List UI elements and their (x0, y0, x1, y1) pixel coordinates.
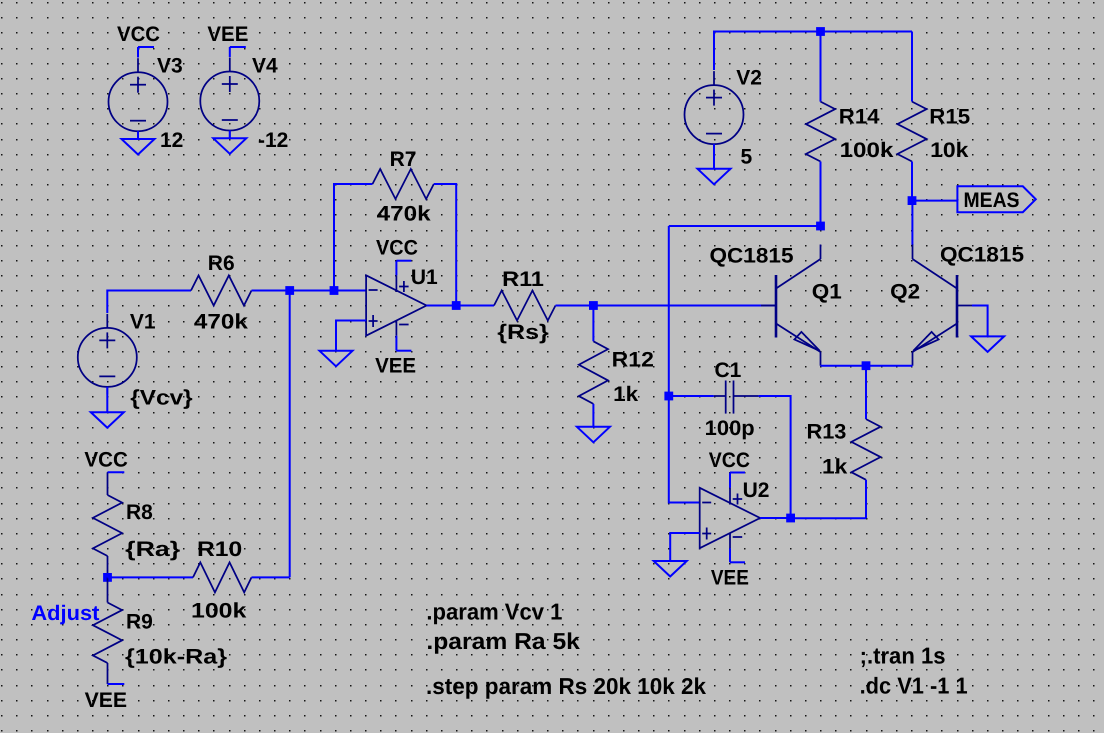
svg-text:470k: 470k (194, 311, 248, 334)
svg-text:VEE: VEE (85, 689, 128, 712)
svg-text:VEE: VEE (711, 567, 749, 590)
label V2 value "5" (741, 146, 753, 169)
svg-text:{Rs}: {Rs} (497, 321, 549, 344)
svg-text:10k: 10k (930, 139, 969, 162)
label directive ";.tran 1s" (860, 642, 946, 668)
resistor R10 (193, 562, 252, 592)
svg-text:{10k-Ra}: {10k-Ra} (125, 645, 227, 668)
node Adjust junction (103, 573, 112, 582)
ground (V4) (213, 131, 246, 154)
svg-text:V4: V4 (252, 54, 278, 77)
svg-text:VCC: VCC (117, 23, 160, 46)
label V4 net name "VEE" (207, 23, 248, 46)
resistor R11 (494, 291, 556, 321)
label directive ".param Ra 5k" (426, 628, 580, 654)
wire V1 top to R6 (107, 291, 191, 314)
resistor R13 (851, 419, 880, 480)
wire node Adjust to R10 (108, 576, 194, 578)
wire node E to C1 (669, 395, 714, 397)
label V4 value "-12" (258, 129, 288, 152)
op-amp U1 (366, 275, 426, 335)
wire Q1 collector to riser (669, 225, 821, 227)
svg-text:R11: R11 (502, 268, 544, 291)
voltage source V2 (685, 71, 744, 152)
wire R14 top lead (820, 32, 822, 102)
label U2 VEE pin (711, 567, 749, 590)
wire U1 non-inverting input to ground (336, 321, 366, 351)
label R7 value "470k" (377, 202, 431, 225)
svg-text:1k: 1k (613, 383, 638, 406)
node H junction (816, 222, 825, 231)
label directive ".step param Rs 20k 10k 2k" (426, 673, 706, 699)
node I junction (908, 196, 917, 205)
svg-text:5: 5 (741, 146, 753, 169)
net label VCC (U1) (396, 261, 411, 276)
svg-text:470k: 470k (377, 202, 431, 225)
svg-text:R7: R7 (390, 148, 417, 171)
label Q2 designator (890, 281, 920, 304)
svg-text:{Ra}: {Ra} (125, 538, 180, 561)
label R9 value "{10k-Ra}" (125, 645, 227, 668)
ground (Q2 base) (971, 336, 1004, 352)
svg-text:{Vcv}: {Vcv} (130, 387, 192, 410)
ground (U2 + input) (654, 561, 687, 577)
svg-text:V1: V1 (130, 310, 156, 333)
wire R15 bottom lead (911, 162, 913, 201)
label MEAS text (964, 189, 1020, 212)
wire U2 non-inverting input to ground (670, 533, 700, 561)
node J junction (862, 361, 871, 370)
wire R13 bottom lead (865, 480, 867, 519)
label R15 value "10k" (930, 139, 969, 162)
resistor R7 (373, 169, 434, 199)
net label VEE (U2) (730, 548, 745, 562)
wire feedback left (334, 184, 373, 291)
svg-text:.dc V1 -1 1: .dc V1 -1 1 (860, 673, 968, 699)
wire R6 to U1 inverting input (252, 290, 367, 292)
wire U1 output (427, 305, 457, 307)
svg-text:-12: -12 (258, 129, 288, 152)
wire Q2 emitter to node J (866, 365, 913, 367)
label Q1 model "QC1815" (710, 245, 794, 268)
label R11 designator (502, 268, 544, 291)
svg-text:12: 12 (160, 129, 183, 152)
label net name "Adjust" (31, 602, 99, 625)
label R10 value "100k" (191, 600, 247, 623)
label U1 VCC pin (376, 237, 418, 260)
wire V2 top rail (714, 32, 912, 71)
label R8 designator (126, 501, 153, 524)
label R9 designator (126, 610, 153, 633)
label V1 designator (130, 310, 156, 333)
voltage source V3 (109, 58, 168, 139)
wire R9 top lead (107, 577, 109, 602)
label V3 value "12" (160, 129, 183, 152)
node C junction (452, 301, 461, 310)
svg-text:QC1815: QC1815 (940, 244, 1024, 267)
label R14 designator (839, 106, 880, 129)
voltage source V4 (200, 58, 259, 139)
label V1 value "{Vcv}" (130, 387, 192, 410)
label R12 value "1k" (613, 383, 638, 406)
label R6 value "470k" (194, 311, 248, 334)
svg-text:.param Ra 5k: .param Ra 5k (426, 628, 580, 654)
svg-text:C1: C1 (715, 359, 742, 382)
label V2 designator (736, 67, 762, 90)
svg-text:V3: V3 (157, 54, 183, 77)
ground (V1) (91, 387, 124, 428)
svg-text:VCC: VCC (376, 237, 418, 260)
svg-text:R12: R12 (612, 349, 654, 372)
resistor R14 (806, 102, 835, 162)
wire feedback right (434, 184, 456, 306)
wire R8 bottom lead (107, 556, 109, 577)
wire R15 top lead (911, 32, 913, 102)
net label VEE (U1) (396, 336, 411, 351)
wire emitters node to R13 (865, 366, 867, 419)
svg-text:100p: 100p (705, 417, 755, 440)
wire node D to Q1 base (593, 305, 776, 307)
svg-text:R14: R14 (839, 106, 880, 129)
label C1 value "100p" (705, 417, 755, 440)
node E junction (664, 392, 673, 401)
svg-text:VEE: VEE (207, 23, 248, 46)
net label VCC (U2) (730, 473, 745, 488)
wire C1 to U2 output (759, 396, 791, 518)
node A junction (285, 286, 294, 295)
net label VCC (V3) (138, 47, 154, 58)
label U1 VEE pin (375, 355, 416, 378)
label V3 net name "VCC" (117, 23, 160, 46)
net label VEE (V4) (230, 47, 246, 57)
node B junction (330, 286, 339, 295)
resistor R12 (579, 341, 608, 404)
svg-text:R6: R6 (208, 252, 235, 275)
label R13 designator (807, 421, 847, 444)
label R8 value "{Ra}" (125, 538, 180, 561)
svg-text:VCC: VCC (84, 449, 128, 472)
wire node D down to R12 (592, 306, 594, 342)
node D junction (589, 301, 598, 310)
label R9 VEE net (85, 689, 128, 712)
label Q1 designator (812, 281, 842, 304)
svg-text:100k: 100k (840, 139, 894, 162)
svg-text:R10: R10 (197, 538, 242, 561)
wire Q2 collector up (911, 201, 913, 245)
wire riser down to U2 inverting input (669, 226, 700, 503)
svg-text:1k: 1k (822, 456, 848, 479)
net flag MEAS (957, 186, 1035, 212)
ground (V3) (122, 131, 155, 154)
label U2 VCC pin (709, 449, 750, 472)
label R10 designator (197, 538, 242, 561)
wire riser node A down to R10 (289, 291, 291, 578)
label V4 designator (252, 54, 278, 77)
label R6 designator (208, 252, 235, 275)
label directive ".param Vcv 1" (426, 598, 562, 624)
ground (V2) (698, 144, 731, 184)
label R12 designator (612, 349, 654, 372)
svg-text:QC1815: QC1815 (710, 245, 794, 268)
resistor R15 (897, 102, 926, 162)
label V3 designator (157, 54, 183, 77)
svg-text:R13: R13 (807, 421, 847, 444)
svg-text:VEE: VEE (375, 355, 416, 378)
wire Q2 base to ground (972, 306, 988, 337)
transistor Q1 (761, 245, 821, 366)
transistor Q2 (913, 245, 973, 366)
svg-text:MEAS: MEAS (964, 189, 1020, 212)
wire R14 bottom lead (820, 162, 822, 227)
ground (R12) (577, 427, 610, 443)
node G junction (816, 27, 825, 36)
wire R12 to ground (592, 404, 594, 427)
label Q2 model "QC1815" (940, 244, 1024, 267)
ground (U1 + input) (320, 351, 353, 367)
svg-text:R15: R15 (929, 106, 970, 129)
label R11 value "{Rs}" (497, 321, 549, 344)
svg-text:.param Vcv 1: .param Vcv 1 (426, 598, 562, 624)
label R14 value "100k" (840, 139, 894, 162)
wire R10 to riser corner (252, 576, 290, 578)
wire Q1 emitter to node J (821, 365, 867, 367)
svg-text:U2: U2 (743, 479, 770, 502)
op-amp U2 (700, 488, 760, 548)
svg-text:;.tran 1s: ;.tran 1s (860, 642, 946, 668)
svg-text:R9: R9 (126, 610, 153, 633)
resistor R6 (191, 276, 252, 306)
wire node I to MEAS flag (912, 200, 957, 202)
wire node F to R13 bottom (791, 517, 866, 519)
resistor R8 (93, 495, 122, 556)
label U2 designator (743, 479, 770, 502)
label R8 VCC net (84, 449, 128, 472)
svg-text:Q1: Q1 (812, 281, 842, 304)
svg-text:.step param Rs 20k 10k 2k: .step param Rs 20k 10k 2k (426, 673, 706, 699)
label R15 designator (929, 106, 970, 129)
label U1 designator (411, 266, 438, 289)
resistor R9 (93, 603, 122, 664)
label C1 designator (715, 359, 742, 382)
svg-text:Q2: Q2 (890, 281, 920, 304)
svg-text:U1: U1 (411, 266, 438, 289)
label R13 value "1k" (822, 456, 848, 479)
wire node C to R11 (456, 305, 494, 307)
label R7 designator (390, 148, 417, 171)
voltage source V1 (78, 314, 137, 395)
svg-text:VCC: VCC (709, 449, 750, 472)
wire U2 output (760, 517, 791, 519)
net label VCC (R8) (108, 472, 125, 495)
label directive ".dc V1 -1 1" (860, 673, 968, 699)
svg-text:R8: R8 (126, 501, 153, 524)
svg-text:100k: 100k (191, 600, 247, 623)
capacitor C1 (714, 381, 759, 414)
svg-text:V2: V2 (736, 67, 762, 90)
svg-text:Adjust: Adjust (31, 602, 99, 625)
wire R11 to node D (556, 305, 594, 307)
net label VEE (R9) (108, 663, 125, 684)
node F junction (786, 514, 795, 523)
